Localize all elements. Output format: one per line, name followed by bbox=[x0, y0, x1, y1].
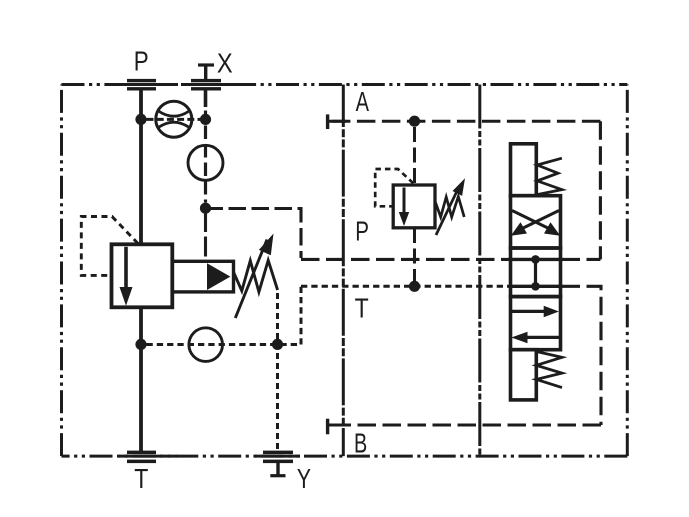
node junction on gallery T bbox=[409, 281, 420, 292]
pilot relief flow arrow head bbox=[399, 212, 409, 226]
svg-text:T: T bbox=[134, 463, 148, 494]
node junction measuring line at P bbox=[135, 339, 146, 350]
pilot relief spring bbox=[436, 197, 465, 218]
node junction on gallery A bbox=[409, 116, 420, 127]
directional valve position box crossed bbox=[511, 196, 561, 248]
pilot relief valve box (middle) bbox=[393, 185, 435, 228]
measuring point circle bbox=[189, 328, 223, 362]
pilot sensing dashed loop (middle valve) bbox=[375, 169, 413, 206]
wire drain from pilot spring (short dash) bbox=[276, 293, 279, 451]
crossed arrow a head bbox=[544, 222, 560, 236]
wire P supply line upper bbox=[139, 90, 143, 245]
node junction on X line top bbox=[200, 114, 211, 125]
node junction X pilot branch bbox=[200, 203, 211, 214]
directional valve position box parallel bbox=[511, 297, 561, 350]
parallel arrow left shaft bbox=[525, 336, 560, 339]
port Y plug cap bbox=[270, 474, 285, 477]
port X bars bbox=[191, 79, 221, 91]
directional valve centre box bbox=[511, 248, 561, 297]
svg-text:A: A bbox=[356, 86, 370, 117]
directional valve solenoid box top bbox=[511, 144, 537, 196]
port Y bars bbox=[263, 451, 293, 464]
relief main stage flow arrow shaft bbox=[124, 247, 128, 290]
pilot relief adjust arrow shaft bbox=[436, 191, 457, 235]
wire gallery P through valve (solid) bbox=[509, 258, 563, 261]
wire gallery B line bbox=[328, 424, 601, 427]
node junction measuring line at drain bbox=[272, 339, 283, 350]
directional valve spring bottom bbox=[536, 352, 562, 388]
wire pilot relief outlet drop bbox=[413, 228, 416, 281]
relief adjust arrow shaft bbox=[235, 240, 267, 319]
relief valve main stage box bbox=[112, 244, 173, 307]
wire measuring gallery y=344 bbox=[147, 287, 302, 345]
parallel arrow right shaft bbox=[511, 310, 546, 313]
wire X port stub bbox=[204, 90, 208, 107]
port T bars bbox=[127, 451, 156, 464]
wire valve to B-rect corner bbox=[562, 286, 602, 425]
wire gallery P line long-dash left bbox=[301, 258, 510, 261]
node junction on P at throttle bbox=[135, 114, 146, 125]
wire pilot branch to middle section bbox=[206, 209, 302, 259]
relief adjust arrow head bbox=[259, 234, 274, 256]
crossed arrow a shaft bbox=[512, 211, 554, 232]
parallel arrow left head bbox=[511, 332, 527, 343]
port X plug cap bbox=[198, 63, 214, 66]
pilot sensing dashed loop (main valve) bbox=[81, 217, 138, 276]
enclosure border (phantom line) bbox=[62, 83, 628, 86]
section divider left/middle bbox=[342, 85, 345, 457]
wire pilot down to relief pilot stage bbox=[204, 212, 207, 261]
svg-text:P: P bbox=[355, 216, 369, 247]
gallery A tick bbox=[326, 114, 329, 129]
wire gallery A line bbox=[328, 120, 601, 123]
pilot relief flow arrow shaft bbox=[403, 188, 406, 215]
directional valve spring top bbox=[536, 158, 562, 195]
port P bars bbox=[127, 79, 156, 91]
throttle lower arc bbox=[158, 122, 190, 128]
port Y plug stem bbox=[276, 463, 279, 475]
wire long-dash X gauge line bbox=[204, 126, 207, 203]
wire gallery T line short-dash bbox=[301, 285, 510, 288]
svg-text:T: T bbox=[355, 292, 369, 323]
crossed arrow b shaft bbox=[517, 211, 559, 232]
svg-text:P: P bbox=[134, 45, 149, 76]
pilot relief adjust arrow head bbox=[453, 178, 466, 196]
parallel arrow right head bbox=[544, 306, 559, 317]
svg-text:Y: Y bbox=[297, 463, 311, 494]
section divider middle/right bbox=[478, 85, 481, 457]
relief main spring bbox=[234, 260, 278, 292]
centre box connector line bbox=[534, 259, 537, 286]
svg-text:X: X bbox=[217, 47, 233, 78]
relief pilot stage poppet triangle bbox=[207, 263, 230, 290]
wire A drop to pilot relief valve bbox=[413, 127, 416, 185]
node connector dot lower bbox=[531, 282, 540, 291]
throttle (venturi) circle bbox=[156, 101, 192, 137]
relief pilot stage box bbox=[172, 261, 233, 292]
wire A-rect right side vertical bbox=[599, 121, 602, 259]
gallery B tick bbox=[326, 419, 329, 435]
wire gallery P to A-rect right bbox=[562, 258, 601, 261]
node connector dot upper bbox=[531, 255, 540, 264]
directional valve solenoid box bottom bbox=[511, 350, 537, 400]
border solid segment at port P bbox=[119, 83, 177, 86]
border solid segment at port T bbox=[119, 455, 177, 458]
wire gallery T through valve (solid) bbox=[509, 285, 563, 288]
svg-text:B: B bbox=[354, 427, 367, 458]
border solid segment at port X bbox=[181, 83, 237, 86]
port X plug stem bbox=[204, 65, 207, 80]
crossed arrow b head bbox=[511, 222, 527, 236]
throttle upper arc bbox=[158, 111, 190, 117]
border solid segment at port Y bbox=[255, 455, 300, 458]
wire P supply line lower bbox=[139, 307, 143, 451]
gauge measuring circle on X line bbox=[188, 145, 223, 180]
relief main stage flow arrow head bbox=[120, 287, 133, 306]
wire dashed link P to X through throttle bbox=[147, 118, 201, 121]
